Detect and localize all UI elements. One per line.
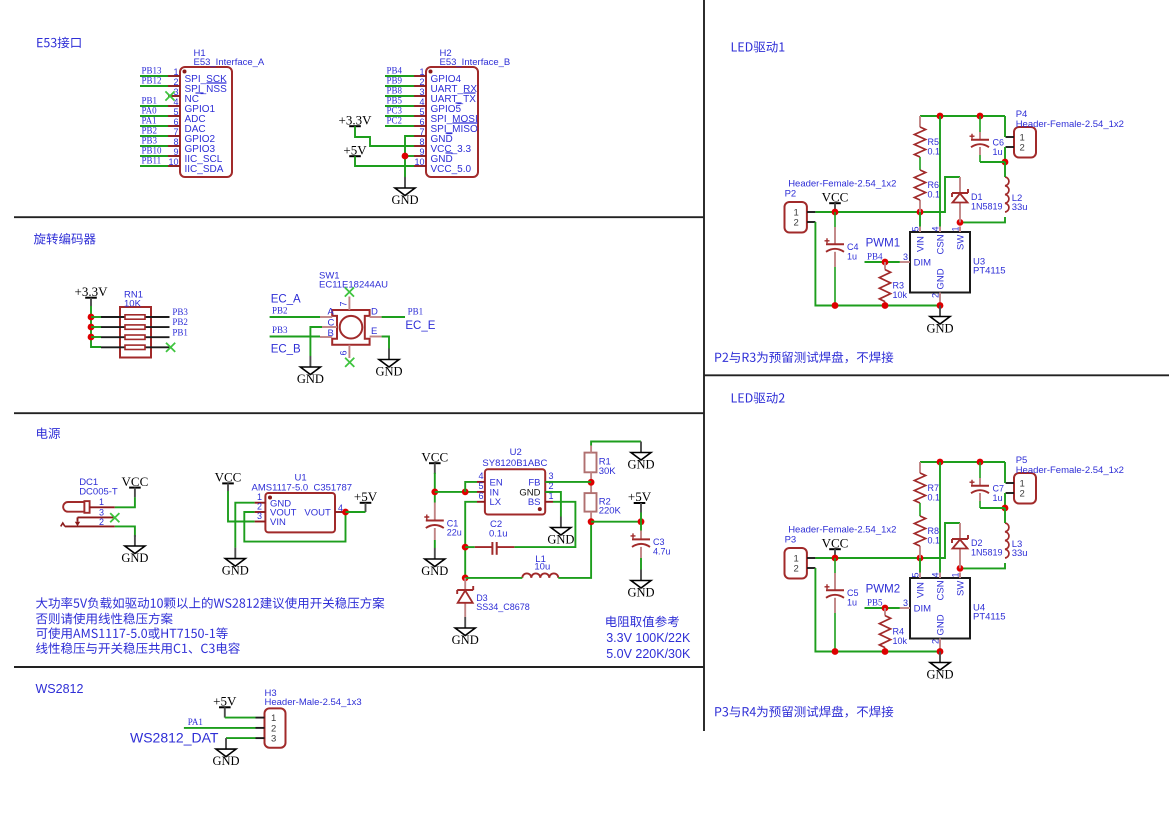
svg-text:GND: GND	[222, 563, 249, 577]
svg-text:PB1: PB1	[172, 327, 188, 337]
svg-text:2: 2	[794, 564, 799, 575]
net name EC_E	[405, 320, 435, 332]
section divider 3	[14, 666, 704, 668]
wire C3 to ground	[640, 558, 642, 570]
svg-text:SW: SW	[956, 581, 967, 596]
svg-text:PB4: PB4	[387, 66, 403, 76]
net label PB10	[142, 146, 163, 156]
svg-text:PB9: PB9	[387, 76, 403, 86]
svg-text:1u: 1u	[847, 252, 857, 262]
junction +5V row	[588, 518, 595, 525]
ground under U1	[222, 548, 249, 578]
power symbol VCC at C1	[421, 449, 448, 464]
capacitor C4 plates	[825, 238, 859, 261]
net label PB5	[867, 598, 883, 608]
svg-text:2: 2	[931, 293, 941, 298]
svg-text:DC005-T: DC005-T	[79, 487, 118, 498]
main vertical divider	[703, 0, 705, 731]
wire U1 GND to ground	[235, 503, 254, 548]
junction VCC C4	[832, 209, 839, 216]
svg-text:PA1: PA1	[142, 116, 157, 126]
wire VCC to U2	[435, 491, 477, 493]
svg-text:PB2: PB2	[172, 317, 188, 327]
svg-text:5: 5	[911, 572, 921, 577]
section title LED驱动1	[732, 41, 785, 52]
junction P4 out	[1002, 159, 1009, 166]
wire +5V to H3 pin1	[225, 717, 256, 719]
note text power options	[36, 597, 384, 654]
power symbol VCC LED驱动1	[822, 189, 849, 204]
svg-text:DIM: DIM	[914, 604, 932, 615]
wire +3.3V to H2 pin 8	[355, 126, 414, 146]
svg-text:SW: SW	[956, 235, 967, 250]
svg-text:GND: GND	[421, 564, 448, 578]
wire C2 to LX	[465, 546, 475, 548]
wire H3 pin3 to ground	[226, 737, 256, 739]
junction VCC C5	[832, 555, 839, 562]
svg-text:7: 7	[339, 301, 349, 306]
junction EN IN	[462, 489, 469, 496]
junction SW	[957, 219, 964, 226]
resistor R4 zigzag	[879, 616, 907, 648]
svg-text:C: C	[328, 317, 335, 328]
no-connect DC1 pin 3	[110, 513, 119, 522]
svg-text:10: 10	[168, 157, 178, 167]
wire PB11 to H1 pin 10	[140, 165, 168, 167]
wire P4 pin2 down	[1004, 147, 1006, 162]
svg-text:+5V: +5V	[213, 694, 237, 709]
junction C6 top	[977, 113, 984, 120]
wire U2 BS to C2	[514, 502, 575, 547]
svg-text:0.1: 0.1	[928, 146, 941, 156]
ground under U2	[547, 517, 574, 547]
svg-text:CSN: CSN	[936, 234, 947, 254]
svg-text:PB4: PB4	[867, 252, 883, 262]
svg-text:PB1: PB1	[142, 96, 158, 106]
svg-text:GND: GND	[936, 614, 947, 635]
svg-text:VCC: VCC	[421, 449, 448, 464]
svg-text:WS2812: WS2812	[36, 682, 84, 696]
svg-text:10u: 10u	[534, 562, 550, 573]
connector P4 Header-Female-2.54_1x2	[1006, 109, 1124, 158]
section title 电源	[37, 428, 60, 439]
power symbol VCC at U1	[215, 470, 242, 485]
section title 旋转编码器	[34, 233, 96, 245]
svg-text:VCC_5.0: VCC_5.0	[431, 164, 472, 175]
no-connect RN1 pin 4	[166, 343, 175, 352]
svg-text:GND: GND	[926, 321, 953, 335]
svg-text:D: D	[371, 307, 378, 318]
svg-text:1: 1	[99, 497, 104, 507]
junction P5 out	[1002, 505, 1009, 512]
net name EC_A	[271, 294, 301, 306]
power symbol +3.3V	[339, 112, 373, 127]
svg-text:PT4115: PT4115	[973, 612, 1006, 623]
svg-text:2: 2	[794, 218, 799, 229]
svg-text:GND: GND	[926, 667, 953, 681]
net label PA1	[142, 116, 157, 126]
ground under C1	[421, 548, 448, 578]
svg-text:PB2: PB2	[142, 126, 158, 136]
svg-text:0.1: 0.1	[928, 189, 941, 199]
svg-text:3: 3	[419, 87, 424, 97]
junction RN1 row3	[88, 334, 95, 341]
svg-text:GND: GND	[391, 193, 418, 207]
svg-text:GND: GND	[452, 633, 479, 647]
net label PB2 at SW1	[272, 306, 288, 316]
resistor R8 0.1	[914, 516, 940, 546]
svg-text:2: 2	[257, 502, 262, 512]
wire H2 pin 7 GND	[405, 136, 414, 177]
svg-text:PWM1: PWM1	[866, 238, 901, 250]
connector P3 Header-Female-2.54_1x2	[785, 525, 897, 579]
wire PB4 to H2 pin 1	[385, 75, 414, 77]
svg-text:7: 7	[173, 127, 178, 137]
svg-text:3: 3	[903, 252, 908, 262]
ground LED驱动2	[926, 652, 953, 682]
svg-text:PC3: PC3	[387, 106, 403, 116]
wire PB10 to H1 pin 9	[140, 155, 168, 157]
svg-text:3: 3	[903, 598, 908, 608]
wire +5V stub	[640, 513, 642, 522]
net label PB9	[387, 76, 403, 86]
svg-text:U2: U2	[510, 447, 522, 458]
svg-text:+5V: +5V	[354, 489, 378, 504]
svg-text:EC_A: EC_A	[271, 294, 301, 306]
net label PB1 at SW1 D	[408, 307, 424, 317]
svg-text:PB8: PB8	[387, 86, 403, 96]
resistor R1 30K	[585, 453, 617, 477]
svg-text:2: 2	[1020, 489, 1025, 500]
no-connect H1 pin 3	[165, 91, 174, 100]
svg-text:SY8120B1ABC: SY8120B1ABC	[482, 458, 547, 469]
svg-text:PB5: PB5	[387, 96, 403, 106]
wire L2 to SW	[960, 217, 1005, 222]
junction CSN top	[937, 113, 944, 120]
wire L1 to +5V node	[558, 522, 591, 578]
wire U1 VOUT loop	[244, 512, 345, 542]
svg-text:4.7u: 4.7u	[653, 547, 671, 557]
svg-text:3: 3	[549, 471, 554, 481]
wire PB2 to SW1 A	[270, 316, 320, 318]
wire H2 pin 9 GND	[405, 155, 414, 157]
svg-text:4: 4	[419, 97, 424, 107]
svg-text:A: A	[328, 307, 335, 318]
svg-text:P2: P2	[785, 189, 797, 200]
svg-text:PB2: PB2	[272, 306, 288, 316]
resistor R3 10k	[884, 262, 886, 306]
svg-text:2: 2	[419, 77, 424, 87]
svg-text:0.1: 0.1	[928, 535, 941, 545]
svg-text:6: 6	[478, 491, 483, 501]
regulator U1 AMS1117-5.0	[252, 473, 353, 533]
wire P2 pin2 down	[815, 222, 835, 306]
note P2与R3为	[715, 351, 893, 363]
junction RN1 row1	[88, 314, 95, 321]
wire VCC down to C1	[434, 473, 436, 503]
svg-text:2: 2	[931, 639, 941, 644]
svg-text:PC2: PC2	[387, 116, 403, 126]
junction VCC VIN U4	[917, 555, 924, 562]
svg-text:4: 4	[931, 572, 941, 577]
svg-text:10K: 10K	[124, 299, 142, 310]
svg-text:0.1: 0.1	[928, 492, 941, 502]
net label PB2	[142, 126, 158, 136]
svg-text:GND: GND	[627, 585, 654, 599]
svg-text:LX: LX	[490, 497, 502, 508]
wire stub RN1 pin1	[91, 316, 101, 318]
net label PB13	[142, 66, 163, 76]
resistor R5 0.1	[914, 127, 940, 157]
LED driver U3 PT4115	[900, 226, 1006, 305]
svg-text:2: 2	[173, 77, 178, 87]
svg-text:30K: 30K	[599, 466, 617, 477]
svg-text:10k: 10k	[893, 290, 908, 300]
net label PC3	[387, 106, 403, 116]
svg-text:1N5819: 1N5819	[971, 548, 1003, 558]
svg-text:2: 2	[99, 517, 104, 527]
svg-text:1u: 1u	[847, 598, 857, 608]
wire PB4 to DIM	[865, 261, 900, 263]
capacitor C5 plates	[825, 584, 859, 607]
svg-text:4: 4	[931, 226, 941, 231]
wire PC2 to H2 pin 6	[385, 125, 414, 127]
no-connect SW1 pin 6	[345, 358, 354, 367]
svg-text:VCC: VCC	[215, 470, 242, 485]
svg-text:VIN: VIN	[916, 582, 927, 598]
net label PB1 at RN1	[172, 327, 188, 337]
connector P5 Header-Female-2.54_1x2	[1006, 455, 1124, 504]
net label PB4	[867, 252, 883, 262]
svg-text:Header-Male-2.54_1x3: Header-Male-2.54_1x3	[265, 697, 362, 708]
svg-text:IIC_SDA: IIC_SDA	[185, 164, 224, 175]
svg-text:GND: GND	[121, 551, 148, 565]
junction DIM R3	[882, 259, 889, 266]
header H3 Header-Male-2.54_1x3	[256, 688, 362, 748]
wire C6 bottom row	[980, 161, 1005, 163]
wire SW1 D to PB1	[382, 316, 405, 318]
capacitor C1 22u	[434, 503, 436, 541]
wire PB2 to H1 pin 7	[140, 135, 168, 137]
svg-text:GND: GND	[297, 372, 324, 386]
wire PB3 to H1 pin 8	[140, 145, 168, 147]
svg-text:33u: 33u	[1012, 202, 1028, 213]
net label PB3 at RN1	[172, 307, 188, 317]
wire PB3 to SW1 B	[270, 336, 320, 338]
net label PA1	[188, 717, 203, 727]
svg-text:3: 3	[257, 511, 262, 521]
connector P2 Header-Female-2.54_1x2	[785, 179, 897, 233]
svg-text:2: 2	[1020, 143, 1025, 154]
section divider	[14, 216, 704, 218]
wire P3 pin2 down	[815, 568, 835, 652]
net label PA0	[142, 106, 158, 116]
svg-text:SS34_C8678: SS34_C8678	[476, 602, 530, 612]
svg-text:9: 9	[173, 147, 178, 157]
wire R1 top to ground	[591, 442, 641, 446]
power symbol VCC at DC1	[122, 474, 149, 489]
wire C1 to ground	[434, 540, 436, 548]
wire U2 LX down	[465, 502, 477, 578]
junction rail C4	[832, 302, 839, 309]
svg-text:EC_E: EC_E	[405, 320, 435, 332]
wire VIN vertical	[919, 558, 921, 573]
junction C7 top	[977, 459, 984, 466]
section title WS2812	[36, 682, 84, 696]
wire stub RN1 pin2	[91, 326, 101, 328]
capacitor C5 1u	[834, 558, 836, 652]
net label PB11	[142, 156, 162, 166]
wire L3 top	[1004, 508, 1006, 523]
wire L2 top	[1004, 162, 1006, 177]
svg-text:8: 8	[419, 137, 424, 147]
svg-text:220K: 220K	[599, 505, 622, 516]
svg-text:9: 9	[419, 147, 424, 157]
svg-text:+5V: +5V	[628, 489, 652, 504]
wire PB1 to H1 pin 4	[140, 105, 168, 107]
net label PB12	[142, 76, 162, 86]
LED driver U4 PT4115	[900, 572, 1006, 651]
wire C7 bottom row	[980, 507, 1005, 509]
resistor network RN1 10K	[101, 290, 170, 358]
junction SW	[957, 565, 964, 572]
junction VCC VIN U3	[917, 209, 924, 216]
junction LX C2	[462, 544, 469, 551]
diode D1 symbol	[952, 189, 1003, 212]
svg-text:PB10: PB10	[142, 146, 163, 156]
svg-text:DIM: DIM	[914, 258, 932, 269]
wire PA1 to H3 pin2	[184, 727, 256, 729]
net name PWM2	[866, 584, 901, 596]
diode D3 symbol	[457, 586, 530, 612]
svg-text:PA0: PA0	[142, 106, 158, 116]
ground under DC1	[121, 535, 148, 565]
power symbol +5V	[343, 142, 367, 157]
wire CSN vertical	[939, 116, 941, 227]
svg-text:PB11: PB11	[142, 156, 162, 166]
junction rail C5	[832, 648, 839, 655]
wire VCC to U1 VIN	[228, 491, 255, 522]
wire PB8 to H2 pin 3	[385, 95, 414, 97]
svg-text:10k: 10k	[893, 636, 908, 646]
diode D1 1N5819	[959, 177, 961, 222]
svg-text:PB1: PB1	[408, 307, 424, 317]
svg-text:4: 4	[478, 471, 483, 481]
svg-text:Header-Female-2.54_1x2: Header-Female-2.54_1x2	[1016, 119, 1124, 130]
svg-text:3.3V 100K/22K: 3.3V 100K/22K	[606, 631, 691, 645]
svg-text:GND: GND	[212, 754, 239, 768]
power symbol +3.3V at RN1	[75, 284, 109, 299]
svg-text:GND: GND	[547, 532, 574, 546]
capacitor C1 plates	[424, 515, 462, 538]
svg-text:CSN: CSN	[936, 580, 947, 600]
wire DC1 pin2 to ground	[115, 526, 135, 537]
svg-text:PB12: PB12	[142, 76, 162, 86]
net name EC_B	[271, 344, 301, 356]
svg-text:+5V: +5V	[343, 142, 367, 157]
svg-text:5: 5	[478, 481, 483, 491]
svg-text:6: 6	[173, 117, 178, 127]
svg-text:EC_B: EC_B	[271, 344, 301, 356]
section divider 2	[14, 412, 704, 414]
section title E53接口	[37, 37, 80, 49]
svg-text:5.0V 220K/30K: 5.0V 220K/30K	[606, 647, 691, 661]
ground under SW1 C	[297, 356, 324, 386]
junction H2 GND	[402, 153, 409, 160]
no-connect SW1 pin 7	[345, 287, 354, 296]
rotary encoder SW1 EC11E18244AU	[319, 271, 388, 359]
svg-text:5: 5	[419, 107, 424, 117]
ground under D3	[452, 617, 479, 647]
power symbol +5V at U1	[354, 489, 378, 504]
wire stub RN1 pin3	[91, 336, 101, 338]
wire U2 GND pin to ground	[545, 492, 561, 517]
wire +5V to H2 pin 10	[355, 156, 414, 166]
junction FB divider	[588, 479, 595, 486]
svg-text:+3.3V: +3.3V	[339, 112, 373, 127]
junction rail R3	[882, 302, 889, 309]
wire PB5 to H2 pin 4	[385, 105, 414, 107]
junction DIM R4	[882, 605, 889, 612]
junction rail R4	[882, 648, 889, 655]
header H1 E53_Interface_A	[168, 48, 265, 177]
svg-text:P3: P3	[785, 535, 797, 546]
svg-text:33u: 33u	[1012, 548, 1028, 559]
net label PB3 at SW1	[272, 325, 288, 335]
capacitor C3 4.7u	[640, 522, 642, 558]
power symbol +5V at H3	[213, 694, 237, 709]
wire top row	[920, 115, 1005, 117]
resistor R6 0.1	[914, 170, 940, 200]
svg-text:PA1: PA1	[188, 717, 203, 727]
wire ground rail	[835, 305, 940, 307]
svg-text:Header-Female-2.54_1x2: Header-Female-2.54_1x2	[788, 179, 896, 190]
net label PC2	[387, 116, 403, 126]
wire top row to P5 pin1	[1004, 462, 1006, 483]
ground under H2	[391, 177, 418, 207]
svg-text:PB3: PB3	[272, 325, 288, 335]
wire PB13 to H1 pin 1	[140, 75, 168, 77]
svg-text:PB5: PB5	[867, 598, 883, 608]
power symbol +5V at C3	[628, 489, 652, 504]
ground under C3	[627, 570, 654, 600]
wire R2 to +5V row	[590, 512, 592, 522]
wire PB9 to H2 pin 2	[385, 85, 414, 87]
svg-text:8: 8	[173, 137, 178, 147]
junction rail GND	[937, 648, 944, 655]
ground under SW1 E	[375, 349, 402, 379]
section title LED驱动2	[732, 392, 785, 403]
wire P2 pin1 to VCC rail	[815, 177, 960, 212]
wire top row to P4 pin1	[1004, 116, 1006, 137]
svg-text:3: 3	[99, 507, 104, 517]
svg-text:1N5819: 1N5819	[971, 202, 1003, 212]
svg-text:VCC: VCC	[822, 189, 849, 204]
capacitor C4 1u	[834, 212, 836, 306]
resistor R2 220K	[585, 493, 622, 516]
junction LX L1	[462, 575, 469, 582]
svg-text:Header-Female-2.54_1x2: Header-Female-2.54_1x2	[788, 525, 896, 536]
svg-text:AMS1117-5.0 C351787: AMS1117-5.0 C351787	[252, 483, 353, 494]
svg-text:PB3: PB3	[172, 307, 188, 317]
svg-text:22u: 22u	[447, 528, 462, 538]
net label PB8	[387, 86, 403, 96]
diode D2 1N5819	[959, 523, 961, 568]
diode D3 SS34	[464, 578, 466, 617]
net label PB3	[142, 136, 158, 146]
wire P3 pin1 to VCC rail	[815, 523, 960, 558]
svg-text:5: 5	[911, 226, 921, 231]
